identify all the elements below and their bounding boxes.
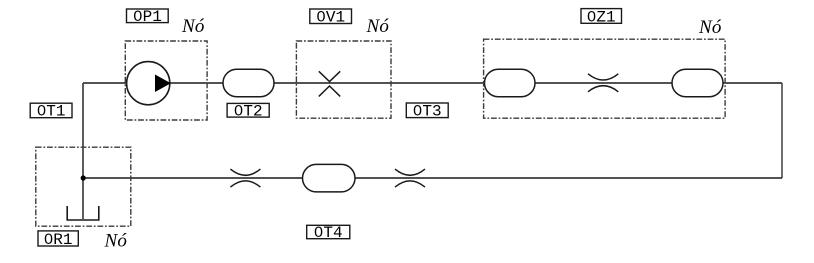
label box 0Z1 xyxy=(581,9,622,24)
dashed enclosure 0R1 xyxy=(36,147,131,226)
throttle arcs bottom-right xyxy=(395,169,425,175)
valve symbol 0V1 (split X) upper V xyxy=(319,71,340,81)
pump U 0P1 circle xyxy=(127,62,170,105)
dashed enclosure 0P1 xyxy=(125,41,207,120)
valve symbol 0V1 lower inverted V xyxy=(319,86,340,96)
label box 0V1 xyxy=(310,9,352,24)
junction node dot xyxy=(81,175,86,180)
label box 0T2 xyxy=(227,103,269,117)
wire bottom horizontal xyxy=(83,177,782,179)
throttle arcs bottom-left xyxy=(230,169,260,175)
stadium node 0T4 xyxy=(303,164,356,192)
label box 0R1 xyxy=(38,231,78,246)
svg-text:Nó: Nó xyxy=(104,231,128,252)
dashed enclosure 0V1 xyxy=(296,41,391,118)
label box 0P1 xyxy=(127,9,169,23)
throttle arcs in 0Z1 xyxy=(588,74,618,80)
wire left vertical into tank xyxy=(82,83,84,219)
svg-text:Nó: Nó xyxy=(366,16,390,37)
wire right vertical xyxy=(781,83,783,178)
label box 0T3 xyxy=(406,103,448,118)
dashed enclosure 0Z1 xyxy=(484,39,725,118)
stadium node 0T2 xyxy=(223,69,274,97)
wire top horizontal xyxy=(83,82,782,84)
stadium node 0Z1 right xyxy=(672,69,723,97)
label box 0T1 xyxy=(30,103,72,118)
svg-text:Nó: Nó xyxy=(181,16,205,37)
svg-text:Nó: Nó xyxy=(698,17,722,38)
stadium node 0Z1 left xyxy=(485,69,536,97)
tank symbol 0R1 xyxy=(67,206,99,220)
pump 0P1 triangle xyxy=(156,75,170,91)
label box 0T4 xyxy=(307,225,350,238)
